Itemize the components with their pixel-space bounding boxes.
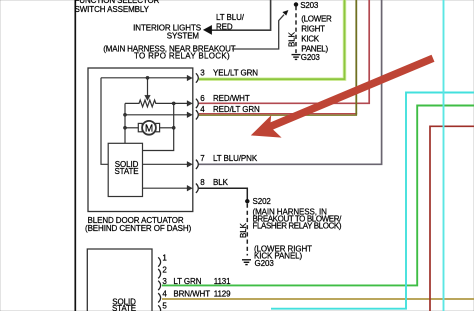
svg-text:BLK: BLK	[288, 31, 297, 47]
svg-text:STATE: STATE	[114, 167, 138, 176]
svg-text:STATE: STATE	[112, 304, 136, 311]
svg-text:RED/LT GRN: RED/LT GRN	[213, 105, 260, 114]
svg-text:YEL/LT GRN: YEL/LT GRN	[213, 68, 258, 77]
svg-text:SWITCH ASSEMBLY: SWITCH ASSEMBLY	[75, 5, 150, 14]
svg-text:S203: S203	[300, 1, 319, 10]
svg-text:S202: S202	[253, 197, 272, 206]
svg-text:8: 8	[200, 178, 205, 187]
svg-text:RED/WHT: RED/WHT	[213, 94, 250, 103]
svg-text:1129: 1129	[214, 290, 231, 299]
svg-text:FLASHER RELAY BLOCK): FLASHER RELAY BLOCK)	[253, 222, 342, 231]
svg-text:3: 3	[200, 68, 205, 77]
svg-text:4: 4	[200, 105, 205, 114]
svg-text:(LOWER: (LOWER	[301, 14, 332, 23]
svg-text:BLK: BLK	[239, 222, 248, 238]
svg-text:BLK: BLK	[213, 178, 229, 187]
svg-text:(BEHIND CENTER OF DASH): (BEHIND CENTER OF DASH)	[85, 224, 192, 233]
svg-text:4: 4	[162, 290, 167, 299]
svg-text:1131: 1131	[214, 277, 231, 286]
svg-text:7: 7	[200, 154, 205, 163]
svg-text:6: 6	[200, 94, 205, 103]
svg-text:1: 1	[162, 254, 167, 263]
svg-text:3: 3	[162, 277, 167, 286]
svg-text:LT BLU/: LT BLU/	[216, 13, 245, 22]
svg-text:G203: G203	[301, 53, 321, 62]
svg-text:RIGHT: RIGHT	[301, 24, 325, 33]
svg-text:KICK: KICK	[301, 35, 319, 44]
svg-text:G203: G203	[255, 259, 275, 268]
svg-text:5: 5	[162, 302, 167, 311]
svg-text:M: M	[145, 123, 153, 134]
svg-text:LT GRN: LT GRN	[173, 277, 201, 286]
svg-text:SYSTEM: SYSTEM	[167, 32, 200, 41]
svg-text:LT BLU/PNK: LT BLU/PNK	[213, 154, 258, 163]
svg-text:TO RPO RELAY BLOCK): TO RPO RELAY BLOCK)	[134, 51, 230, 60]
svg-text:BRN/WHT: BRN/WHT	[173, 290, 210, 299]
svg-text:2: 2	[162, 265, 167, 274]
